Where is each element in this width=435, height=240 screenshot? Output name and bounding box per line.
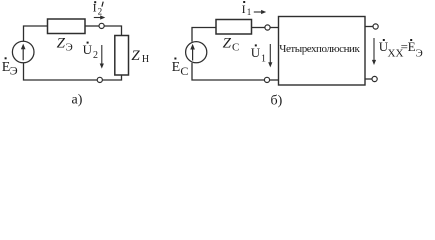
wire: b node to box (bottom)	[270, 79, 279, 81]
wire: a load bottom stub	[102, 75, 121, 80]
wire: a top mid (Z_E to node)	[85, 25, 99, 27]
label Z_n	[131, 48, 149, 65]
svg-text:Z: Z	[57, 36, 66, 52]
label Uxx = E_e	[379, 39, 423, 59]
voltage label U1	[251, 44, 266, 64]
label E_c	[172, 58, 189, 78]
resistor Z_c	[216, 20, 252, 35]
voltage arrow U2 (down)	[100, 45, 104, 69]
wire: b node to box (top)	[270, 27, 278, 29]
voltage source E_c arrow	[190, 44, 195, 61]
svg-text:Э: Э	[416, 47, 423, 59]
resistor Z_e	[48, 19, 86, 34]
svg-text:E: E	[172, 60, 181, 75]
wire: b left vertical bottom	[192, 63, 264, 80]
svg-text:U: U	[83, 42, 93, 57]
wire: box to output node top	[365, 26, 373, 28]
voltage arrow U1 (down)	[268, 44, 272, 67]
svg-text:I: I	[242, 2, 246, 16]
node: terminal 2 (top)	[99, 23, 104, 28]
label E_e	[2, 57, 18, 77]
svg-text:E: E	[408, 39, 416, 54]
svg-text:Э: Э	[10, 64, 18, 78]
node: box input bottom	[264, 77, 269, 82]
svg-text:а): а)	[72, 92, 83, 107]
svg-text:С: С	[180, 64, 188, 78]
svg-text:1: 1	[247, 7, 252, 17]
current arrow I1	[254, 10, 266, 14]
current label I2'	[93, 0, 104, 16]
impedance Z_n (load)	[115, 36, 129, 76]
svg-text:2: 2	[98, 7, 103, 17]
svg-text:1: 1	[261, 54, 266, 65]
svg-text:б): б)	[271, 94, 283, 109]
voltage source E_c (circle)	[186, 42, 207, 63]
two-port box	[279, 17, 366, 86]
svg-text:Четырехполюсник: Четырехполюсник	[279, 43, 360, 55]
wire: b left vertical top	[192, 28, 216, 42]
node: terminal 2' (bottom)	[97, 77, 102, 82]
voltage source E_e arrow	[21, 44, 26, 61]
svg-text:Н: Н	[142, 54, 149, 65]
voltage source E_e (circle)	[12, 41, 34, 63]
node: box input top	[265, 25, 270, 30]
voltage label U2	[83, 42, 98, 61]
node: output bottom	[372, 76, 377, 81]
svg-text:Э: Э	[66, 42, 73, 54]
wire: box to output node bottom	[365, 78, 372, 80]
voltage arrow Uxx (down)	[372, 38, 376, 65]
label Z_c	[223, 36, 240, 54]
svg-text:С: С	[232, 42, 239, 54]
wire: a left vertical bottom	[24, 63, 98, 80]
wire: a left vertical top	[24, 26, 48, 41]
svg-text:Z: Z	[223, 36, 232, 52]
node: output top	[373, 24, 378, 29]
wire: a node to load	[104, 26, 121, 36]
svg-text:U: U	[251, 45, 261, 60]
wire: b Z_c to node	[252, 27, 265, 29]
label Z_e	[57, 36, 73, 54]
current label I1	[242, 1, 252, 17]
svg-text:2: 2	[93, 50, 98, 61]
current arrow I2'	[94, 15, 106, 19]
svg-text:Z: Z	[131, 48, 140, 64]
